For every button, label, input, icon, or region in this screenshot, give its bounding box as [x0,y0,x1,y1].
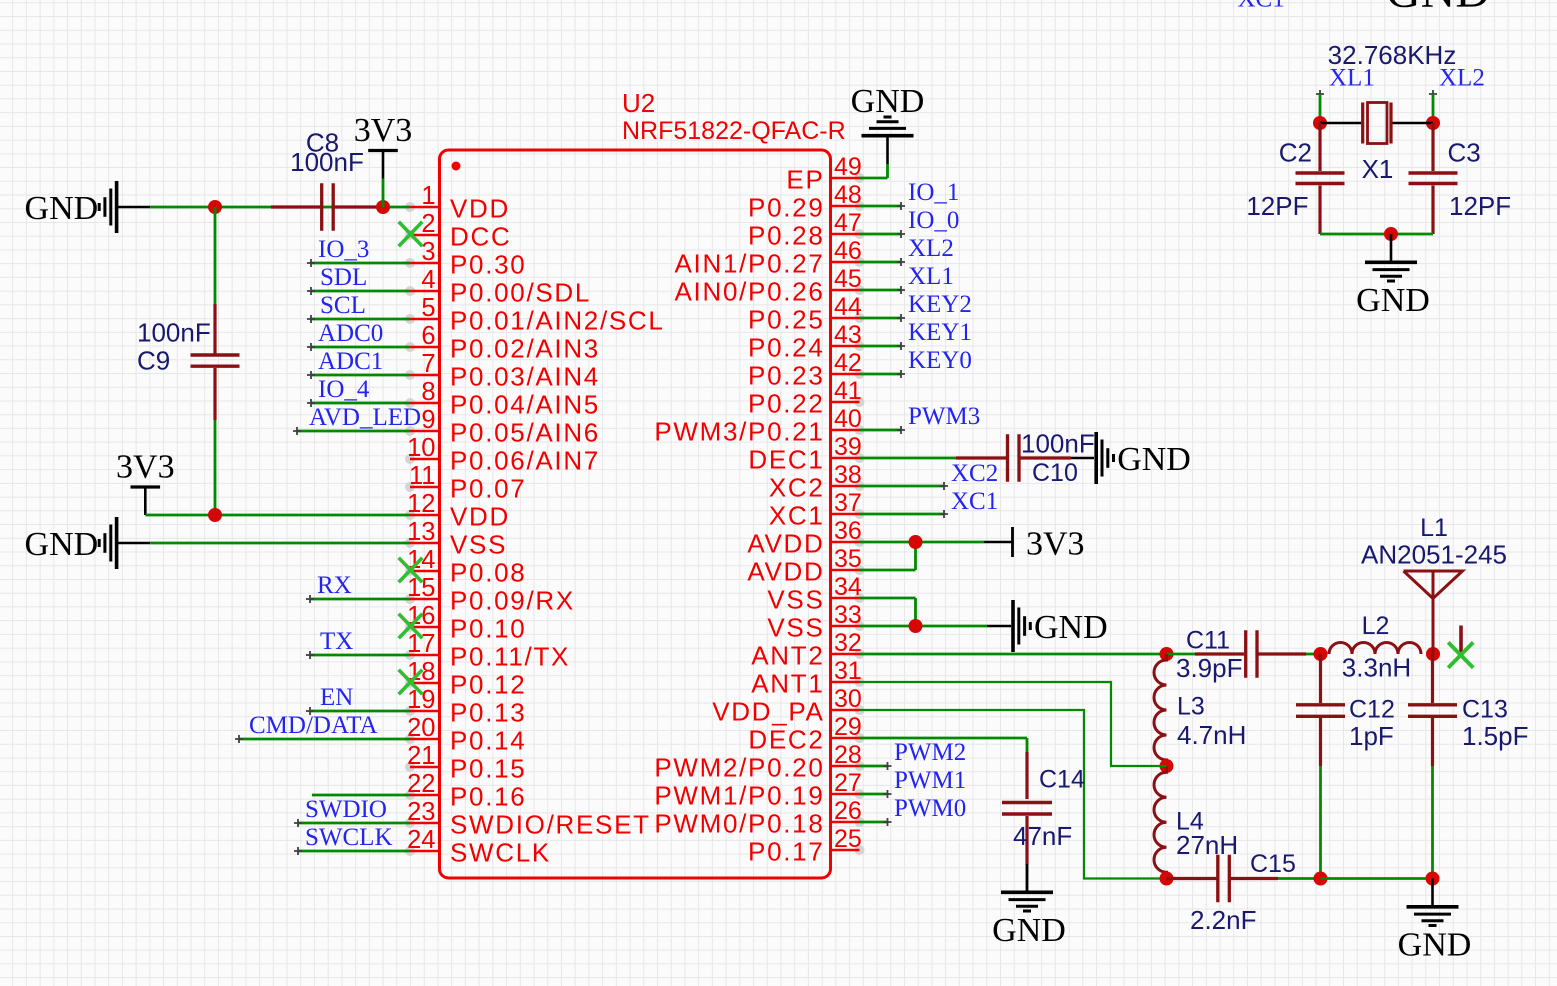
U2 pin 9 (P0.05/AIN6) stub, number and name [405,426,415,436]
svg-text:KEY1: KEY1 [908,319,972,346]
svg-text:P0.30: P0.30 [450,250,526,280]
svg-text:3V3: 3V3 [1026,526,1085,563]
svg-text:3: 3 [421,238,435,266]
svg-text:48: 48 [834,181,862,209]
svg-text:C3: C3 [1448,138,1481,168]
capacitor C8 (100nF) horizontal [271,205,320,208]
wire net CMD/DATA to pin 20 [239,738,410,741]
capacitor C2 (12PF) vertical [1318,123,1321,171]
svg-text:AVD_LED: AVD_LED [309,404,421,431]
U2 pin 2 (DCC) stub, number and name [405,230,415,240]
U2 pin 17 (P0.11/TX) stub, number and name [405,650,415,660]
svg-text:P0.29: P0.29 [748,193,824,223]
svg-text:43: 43 [834,321,862,349]
svg-text:35: 35 [834,545,862,573]
svg-text:IO_4: IO_4 [318,376,370,403]
junction dot C13 bottom rail / GND [1426,872,1440,886]
svg-text:SWCLK: SWCLK [450,838,551,868]
svg-text:C14: C14 [1039,766,1085,794]
svg-text:13: 13 [407,518,435,546]
wire pin 29 DEC2 to C14 [860,737,1028,740]
wire pin 39 DEC1 to C10 [860,457,957,460]
no-connect X on pin 14 [399,558,423,583]
svg-text:P0.07: P0.07 [450,474,526,504]
U2 pin 23 (SWDIO/RESET) stub, number and name [405,818,415,828]
vertical wire VSS pins 34-33 [914,598,917,626]
U2 pin 19 (P0.13) stub, number and name [405,706,415,716]
svg-text:XL2: XL2 [1439,65,1485,92]
svg-text:P0.15: P0.15 [450,754,526,784]
junction dot VSS [909,619,923,633]
svg-text:NRF51822-QFAC-R: NRF51822-QFAC-R [622,117,846,145]
svg-text:11: 11 [409,462,435,490]
svg-text:P0.00/SDL: P0.00/SDL [450,278,591,308]
svg-text:42: 42 [834,349,862,377]
svg-text:PWM1: PWM1 [894,767,966,794]
wire net ADC0 to pin 6 [311,346,410,349]
wire pin 34 VSS [860,597,916,600]
svg-text:AVDD: AVDD [747,529,824,559]
ground flag GND (top, to pin 49 EP) [886,137,889,164]
svg-text:SWCLK: SWCLK [305,824,393,851]
wire net PWM3 from pin 40 [860,429,902,432]
svg-text:IO_1: IO_1 [908,179,959,206]
no-connect X on pin 16 [399,614,423,639]
U2 pin 48 (P0.29) stub, number and name [855,201,865,211]
U2 pin 18 (P0.12) stub, number and name [405,678,415,688]
svg-text:DEC2: DEC2 [748,725,824,755]
svg-text:4.7nH: 4.7nH [1177,720,1246,750]
svg-text:3.9pF: 3.9pF [1176,653,1243,683]
svg-text:XL1: XL1 [908,263,954,290]
svg-text:26: 26 [834,797,862,825]
capacitor C3 (12PF) vertical [1431,123,1434,171]
U2 pin 4 (P0.00/SDL) stub, number and name [405,286,415,296]
svg-text:24: 24 [407,826,435,854]
svg-text:EN: EN [320,684,353,711]
U2 pin 22 (P0.16) stub, number and name [405,790,415,800]
wire net PWM1 from pin 27 [860,793,888,796]
svg-text:XC1: XC1 [769,501,825,531]
svg-text:ANT1: ANT1 [751,669,824,699]
inductor L2 (3.3nH) horizontal [1329,643,1421,655]
wire pin 33 VSS to GND flag [860,625,988,628]
U2 pin 14 (P0.08) stub, number and name [405,566,415,576]
U2 pin 26 (PWM0/P0.18) stub, number and name [855,817,865,827]
svg-text:SDL: SDL [320,264,367,291]
svg-text:P0.09/RX: P0.09/RX [450,586,575,616]
svg-text:L1: L1 [1420,514,1448,542]
wire net SWCLK to pin 24 [298,850,410,853]
svg-text:17: 17 [407,630,435,658]
svg-text:GND: GND [25,190,99,227]
wire pin 30 VDD_PA to bottom rail [860,710,1167,879]
wire net XL1 from pin 45 [860,289,902,292]
svg-text:41: 41 [834,377,862,405]
svg-text:37: 37 [834,489,862,517]
svg-text:P0.10: P0.10 [450,614,526,644]
svg-text:X1: X1 [1362,154,1394,184]
wire net IO_1 from pin 48 [860,205,902,208]
svg-text:P0.03/AIN4: P0.03/AIN4 [450,362,600,392]
svg-text:5: 5 [421,294,435,322]
svg-text:GND: GND [1386,0,1490,18]
wire pin 36 AVDD to 3V3 flag [860,541,985,544]
svg-text:19: 19 [407,686,435,714]
U2 pin 6 (P0.02/AIN3) stub, number and name [405,342,415,352]
svg-text:XC2: XC2 [951,460,998,487]
svg-text:U2: U2 [622,88,655,118]
wire GND to pin 13 VSS [150,542,410,545]
svg-text:XL2: XL2 [908,235,954,262]
svg-text:1: 1 [421,182,435,210]
U2 pin 33 (VSS) stub, number and name [855,621,865,631]
wire net SWDIO to pin 23 [298,822,410,825]
wire XL1 junction to crystal [1320,122,1361,125]
wire net XL2 from pin 46 [860,261,902,264]
wire net PWM2 from pin 28 [860,765,888,768]
svg-text:RX: RX [317,572,352,599]
svg-text:VDD: VDD [450,502,510,532]
svg-text:P0.01/AIN2/SCL: P0.01/AIN2/SCL [450,306,665,336]
U2 pin 45 (AIN0/P0.26) stub, number and name [855,285,865,295]
wire GND to junction to pin 1 VDD [150,206,410,209]
svg-text:IO_3: IO_3 [318,236,369,263]
U2 pin 10 (P0.06/AIN7) stub, number and name [405,454,415,464]
svg-text:P0.28: P0.28 [748,221,824,251]
wire net XL2 stub [1429,90,1437,98]
svg-text:2: 2 [421,210,435,238]
U2 pin 46 (AIN1/P0.27) stub, number and name [855,257,865,267]
svg-text:P0.02/AIN3: P0.02/AIN3 [450,334,600,364]
svg-text:3V3: 3V3 [116,449,175,486]
svg-text:IO_0: IO_0 [908,207,959,234]
U2 pin 25 (P0.17) stub, number and name [855,845,865,855]
svg-text:AVDD: AVDD [747,557,824,587]
svg-text:P0.16: P0.16 [450,782,526,812]
wire net KEY2 from pin 44 [860,317,902,320]
svg-text:36: 36 [834,517,862,545]
junction dot L2/antenna/C13 [1426,647,1440,661]
svg-text:1pF: 1pF [1349,721,1394,751]
U2 pin 37 (XC1) stub, number and name [855,509,865,519]
wire 3V3 to pin 12 VDD [145,514,410,517]
wire net SDL to pin 4 [311,290,410,293]
svg-text:EP: EP [786,165,824,195]
svg-text:C12: C12 [1349,696,1395,724]
svg-text:SWDIO: SWDIO [305,796,387,823]
U2 pin 35 (AVDD) stub, number and name [855,565,865,575]
wire net XC2 from pin 38 [860,485,945,488]
svg-text:PWM0: PWM0 [894,795,966,822]
svg-text:44: 44 [834,293,862,321]
U2 pin 21 (P0.15) stub, number and name [405,762,415,772]
svg-text:VSS: VSS [767,585,824,615]
svg-text:XC2: XC2 [769,473,825,503]
capacitor C9 (100nF) vertical branch [214,207,217,304]
svg-text:29: 29 [834,713,862,741]
svg-text:25: 25 [834,825,862,853]
svg-text:TX: TX [320,628,353,655]
U2 pin 3 (P0.30) stub, number and name [405,258,415,268]
svg-text:46: 46 [834,237,862,265]
svg-text:P0.22: P0.22 [748,389,824,419]
svg-text:GND: GND [992,912,1066,949]
svg-text:VDD: VDD [450,194,510,224]
wire net EN to pin 19 [310,710,410,713]
svg-text:ANT2: ANT2 [751,641,824,671]
svg-text:40: 40 [834,405,862,433]
svg-text:9: 9 [421,406,435,434]
junction dot crystal ground rail [1384,227,1398,241]
svg-text:AIN0/P0.26: AIN0/P0.26 [675,277,825,307]
wire pin 35 AVDD [860,569,916,572]
svg-text:DEC1: DEC1 [748,445,824,475]
U2 pin 1 (VDD) stub, number and name [405,202,415,212]
svg-text:PWM2/P0.20: PWM2/P0.20 [654,753,824,783]
svg-text:ADC1: ADC1 [318,348,383,375]
svg-text:34: 34 [834,573,862,601]
svg-text:27: 27 [834,769,862,797]
junction dot C11/L2/C12 [1314,647,1328,661]
svg-text:P0.23: P0.23 [748,361,824,391]
svg-text:GND: GND [1034,609,1108,646]
svg-text:30: 30 [834,685,862,713]
U2 pin 39 (DEC1) stub, number and name [855,453,865,463]
ground flag GND (right of pin 33) [1011,600,1015,652]
wire net IO_0 from pin 47 [860,233,902,236]
U2 pin 12 (VDD) stub, number and name [405,510,415,520]
wire net KEY1 from pin 43 [860,345,902,348]
svg-text:20: 20 [407,714,435,742]
svg-text:P0.24: P0.24 [748,333,824,363]
wire net IO_3 to pin 3 [311,262,410,265]
wire pin 32 ANT2 to matching network [860,653,1167,656]
junction dot L4 bottom / C15 left [1160,872,1174,886]
U2 pin 38 (XC2) stub, number and name [855,481,865,491]
svg-text:P0.14: P0.14 [450,726,526,756]
junction dot C12 bottom rail [1314,872,1328,886]
svg-text:6: 6 [421,322,435,350]
U2 pin 32 (ANT2) stub, number and name [855,649,865,659]
capacitor C15 (2.2nF) horizontal [1167,877,1217,880]
crystal X1 symbol [1361,103,1364,144]
svg-text:12PF: 12PF [1246,191,1308,221]
svg-text:VSS: VSS [767,613,824,643]
junction dot ANT2 / L3 top [1160,647,1174,661]
svg-text:C2: C2 [1279,138,1312,168]
svg-text:VSS: VSS [450,530,507,560]
svg-text:3.3nH: 3.3nH [1342,653,1411,683]
svg-text:XC1: XC1 [951,488,998,515]
ground flag GND (crystal) [1390,234,1393,261]
svg-text:L3: L3 [1177,693,1205,721]
svg-text:21: 21 [407,742,435,770]
U2 pin 40 (PWM3/P0.21) stub, number and name [855,425,865,435]
svg-text:SCL: SCL [320,292,366,319]
svg-text:AIN1/P0.27: AIN1/P0.27 [675,249,825,279]
U2 pin 8 (P0.04/AIN5) stub, number and name [405,398,415,408]
svg-text:P0.05/AIN6: P0.05/AIN6 [450,418,600,448]
svg-text:2.2nF: 2.2nF [1190,905,1257,935]
svg-text:GND: GND [25,526,99,563]
U2 pin 28 (PWM2/P0.20) stub, number and name [855,761,865,771]
U2 pin 49 (EP) stub, number and name [855,173,865,183]
svg-text:8: 8 [421,378,435,406]
capacitor C11 (3.9pF) horizontal [1167,653,1196,656]
svg-text:P0.11/TX: P0.11/TX [450,642,570,672]
svg-text:3V3: 3V3 [354,112,413,149]
wire net IO_4 to pin 8 [311,402,410,405]
svg-text:C10: C10 [1032,459,1078,487]
svg-text:100nF: 100nF [1021,429,1095,459]
op-amp U2 body (IC NRF51822-QFAC-R outline) [440,150,831,878]
svg-text:39: 39 [834,433,862,461]
U2 pin 27 (PWM1/P0.19) stub, number and name [855,789,865,799]
svg-text:P0.04/AIN5: P0.04/AIN5 [450,390,600,420]
svg-text:GND: GND [1398,926,1472,963]
U2 pin 13 (VSS) stub, number and name [405,538,415,548]
svg-text:23: 23 [407,798,435,826]
svg-text:100nF: 100nF [137,318,211,348]
U2 pin 47 (P0.28) stub, number and name [855,229,865,239]
ground flag GND (right of C10) [1094,432,1098,484]
U2 pin 15 (P0.09/RX) stub, number and name [405,594,415,604]
svg-text:PWM3/P0.21: PWM3/P0.21 [654,417,824,447]
svg-text:45: 45 [834,265,862,293]
svg-text:C11: C11 [1186,627,1230,655]
junction dot at 3V3/pin1 [376,200,390,214]
wire net ADC1 to pin 7 [311,374,410,377]
svg-text:KEY0: KEY0 [908,347,972,374]
U2 pin-1 marker dot [452,162,461,171]
U2 pin 34 (VSS) stub, number and name [855,593,865,603]
svg-text:PWM3: PWM3 [908,403,980,430]
U2 pin 16 (P0.10) stub, number and name [405,622,415,632]
antenna NC pin stub [1459,626,1463,654]
svg-text:CMD/DATA: CMD/DATA [249,712,378,739]
wire net (unlabeled pin 22) to pin 22 [312,794,410,797]
svg-text:XL1: XL1 [1329,65,1375,92]
wire bottom rail C12 to C13 [1321,877,1433,880]
no-connect X on antenna pin [1448,642,1473,667]
inductor L4 (27nH) vertical [1154,766,1167,879]
svg-text:L2: L2 [1362,612,1390,640]
svg-text:38: 38 [834,461,862,489]
svg-text:15: 15 [407,574,435,602]
wire net TX to pin 17 [310,654,410,657]
junction dot L3/L4/ANT1 [1160,759,1174,773]
vertical wire AVDD pins 36-35 [914,542,917,570]
wire GND to pin 49 EP [886,164,889,178]
svg-text:10: 10 [407,434,435,462]
U2 pin 5 (P0.01/AIN2/SCL) stub, number and name [405,314,415,324]
svg-text:PWM1/P0.19: PWM1/P0.19 [654,781,824,811]
svg-text:C9: C9 [137,346,170,376]
U2 pin 30 (VDD_PA) stub, number and name [855,705,865,715]
inductor L3 (4.7nH) vertical [1154,654,1167,766]
wire pin 31 ANT1 to L3/L4 junction [860,682,1167,766]
svg-text:GND: GND [1356,282,1430,319]
svg-text:PWM2: PWM2 [894,739,966,766]
U2 pin 7 (P0.03/AIN4) stub, number and name [405,370,415,380]
svg-text:12: 12 [407,490,435,518]
svg-text:PWM0/P0.18: PWM0/P0.18 [654,809,824,839]
svg-text:XC1: XC1 [1238,0,1285,13]
wire net AVD_LED to pin 9 [297,430,410,433]
capacitor C12 (1pF) vertical [1319,654,1322,703]
svg-text:P0.13: P0.13 [450,698,526,728]
junction dot XL2/crystal/C3 [1426,116,1440,130]
wire net XL1 stub [1316,90,1324,98]
svg-text:P0.12: P0.12 [450,670,526,700]
svg-text:22: 22 [407,770,435,798]
no-connect X on pin 2 [399,222,423,247]
wire net SCL to pin 5 [311,318,410,321]
junction dot C9 bottom / pin12 wire [208,508,222,522]
U2 pin 42 (P0.23) stub, number and name [855,369,865,379]
capacitor C14 (47nF) vertical [1025,752,1028,799]
svg-text:49: 49 [834,153,862,181]
ground flag GND (below C14) [1026,865,1029,891]
svg-text:P0.25: P0.25 [748,305,824,335]
svg-text:C15: C15 [1250,850,1296,878]
U2 pin 29 (DEC2) stub, number and name [855,733,865,743]
power flag 3V3 (right) [984,541,1012,544]
svg-text:DCC: DCC [450,222,511,252]
U2 pin 43 (P0.24) stub, number and name [855,341,865,351]
svg-text:33: 33 [834,601,862,629]
svg-text:100nF: 100nF [290,147,364,177]
svg-text:47: 47 [834,209,862,237]
wire crystal ground rail [1320,233,1433,236]
svg-text:7: 7 [421,350,435,378]
svg-text:47nF: 47nF [1013,821,1072,851]
svg-text:VDD_PA: VDD_PA [712,697,824,727]
svg-text:4: 4 [421,266,435,294]
wire net RX to pin 15 [310,598,410,601]
junction dot at C9 top [208,200,222,214]
U2 pin 44 (P0.25) stub, number and name [855,313,865,323]
svg-text:GND: GND [851,83,925,120]
svg-text:GND: GND [1117,441,1191,478]
U2 pin 31 (ANT1) stub, number and name [855,677,865,687]
U2 pin 36 (AVDD) stub, number and name [855,537,865,547]
svg-text:1.5pF: 1.5pF [1462,721,1529,751]
capacitor C13 (1.5pF) vertical [1431,654,1434,703]
svg-text:ADC0: ADC0 [318,320,383,347]
svg-text:SWDIO/RESET: SWDIO/RESET [450,810,651,840]
wire crystal to XL2 junction [1393,122,1434,125]
U2 pin 41 (P0.22) stub, number and name [855,397,865,407]
svg-text:P0.06/AIN7: P0.06/AIN7 [450,446,600,476]
wire 3V3 stem to pin1 wire [382,179,385,208]
wire net PWM0 from pin 26 [860,821,888,824]
svg-text:AN2051-245: AN2051-245 [1361,540,1507,570]
antenna L1 AN2051-245 symbol [1404,571,1463,655]
svg-text:KEY2: KEY2 [908,291,972,318]
capacitor C10 (100nF) horizontal [956,456,1006,459]
U2 pin 11 (P0.07) stub, number and name [405,482,415,492]
svg-text:C13: C13 [1462,696,1508,724]
svg-text:32: 32 [834,629,862,657]
svg-text:28: 28 [834,741,862,769]
no-connect X on pin 18 [399,670,423,695]
svg-text:31: 31 [834,657,862,685]
U2 pin 24 (SWCLK) stub, number and name [405,846,415,856]
ground flag GND (bottom right) [1431,879,1434,906]
svg-text:P0.08: P0.08 [450,558,526,588]
